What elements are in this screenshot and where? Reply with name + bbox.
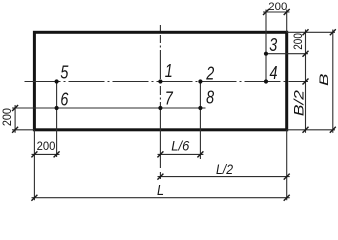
tick right chain at node 3 row <box>303 51 309 57</box>
extension line top edge to right <box>287 31 335 33</box>
svg-text:2: 2 <box>206 62 215 83</box>
tick 200 top left end <box>263 9 269 15</box>
extension line bottom edge to right <box>287 129 335 131</box>
svg-text:4: 4 <box>270 62 278 83</box>
tick L/2 right end <box>284 174 290 180</box>
vertical centerline through nodes 1 7 <box>159 25 161 179</box>
tick L/6 right end <box>197 151 203 157</box>
svg-text:L/6: L/6 <box>171 137 189 153</box>
wire column through nodes 3 4 <box>265 10 267 82</box>
node dots <box>55 52 269 110</box>
node 2 <box>198 79 202 83</box>
dimension ticks <box>12 9 336 201</box>
extension line row 678 to left <box>12 107 34 109</box>
tick L/2 left end <box>157 174 163 180</box>
dimension line 200 top <box>263 11 290 13</box>
tick B top end <box>330 29 336 35</box>
tick B bottom end <box>330 127 336 133</box>
svg-text:8: 8 <box>206 87 215 108</box>
tick right chain at bottom edge <box>303 127 309 133</box>
svg-text:L: L <box>157 182 164 199</box>
tick L right end <box>284 195 290 201</box>
svg-text:B/2: B/2 <box>291 90 307 116</box>
svg-text:5: 5 <box>60 62 69 83</box>
svg-text:200: 200 <box>268 1 287 13</box>
extension line bottom edge to left <box>12 129 34 131</box>
tick L left end <box>31 195 37 201</box>
node 7 <box>158 106 162 110</box>
svg-text:6: 6 <box>60 89 69 110</box>
node 6 <box>55 106 59 110</box>
dimension line L/6 <box>158 153 204 155</box>
tick 200 bottom left end <box>31 151 37 157</box>
extension line right edge below <box>286 130 288 200</box>
tick right chain at centerline <box>303 79 309 85</box>
tick right chain at top edge <box>303 29 309 35</box>
dimension line 200 bottom left <box>32 153 60 155</box>
dimension line L <box>32 197 290 199</box>
svg-text:200: 200 <box>37 139 56 153</box>
dimension line 200 left vertical <box>14 105 16 133</box>
wire column through nodes 2 8 <box>199 82 201 160</box>
dimension line L/2 <box>158 176 290 178</box>
tick 200 left bottom end <box>12 127 18 133</box>
svg-text:7: 7 <box>165 88 174 109</box>
svg-text:1: 1 <box>165 60 173 81</box>
tick L/6 left end <box>157 151 163 157</box>
node 4 <box>264 79 268 83</box>
svg-text:200: 200 <box>291 33 305 50</box>
dimension chain line right 200 and B/2 <box>305 30 307 133</box>
wire row through node 3 to right dim <box>266 53 308 55</box>
tick 200 top right end <box>284 9 290 15</box>
node 1 <box>158 79 162 83</box>
node number labels <box>60 34 277 110</box>
node 8 <box>198 106 202 110</box>
svg-text:L/2: L/2 <box>216 161 233 177</box>
node 5 <box>55 79 59 83</box>
svg-text:B: B <box>319 73 331 86</box>
svg-text:3: 3 <box>269 34 278 55</box>
tick 200 left top end <box>12 105 18 111</box>
svg-text:200: 200 <box>0 108 14 126</box>
dimension line B <box>332 30 334 133</box>
plate outline rectangle <box>34 32 286 130</box>
wire column through nodes 5 6 <box>56 82 58 158</box>
tick 200 bottom right end <box>54 151 60 157</box>
node 3 <box>264 52 268 56</box>
dimension value labels <box>0 1 305 153</box>
horizontal centerline through nodes 5 1 2 4 <box>25 81 309 83</box>
extension line left edge below <box>33 130 35 200</box>
extension line right edge above <box>286 10 288 33</box>
wire row through nodes 6 7 8 <box>12 107 206 109</box>
